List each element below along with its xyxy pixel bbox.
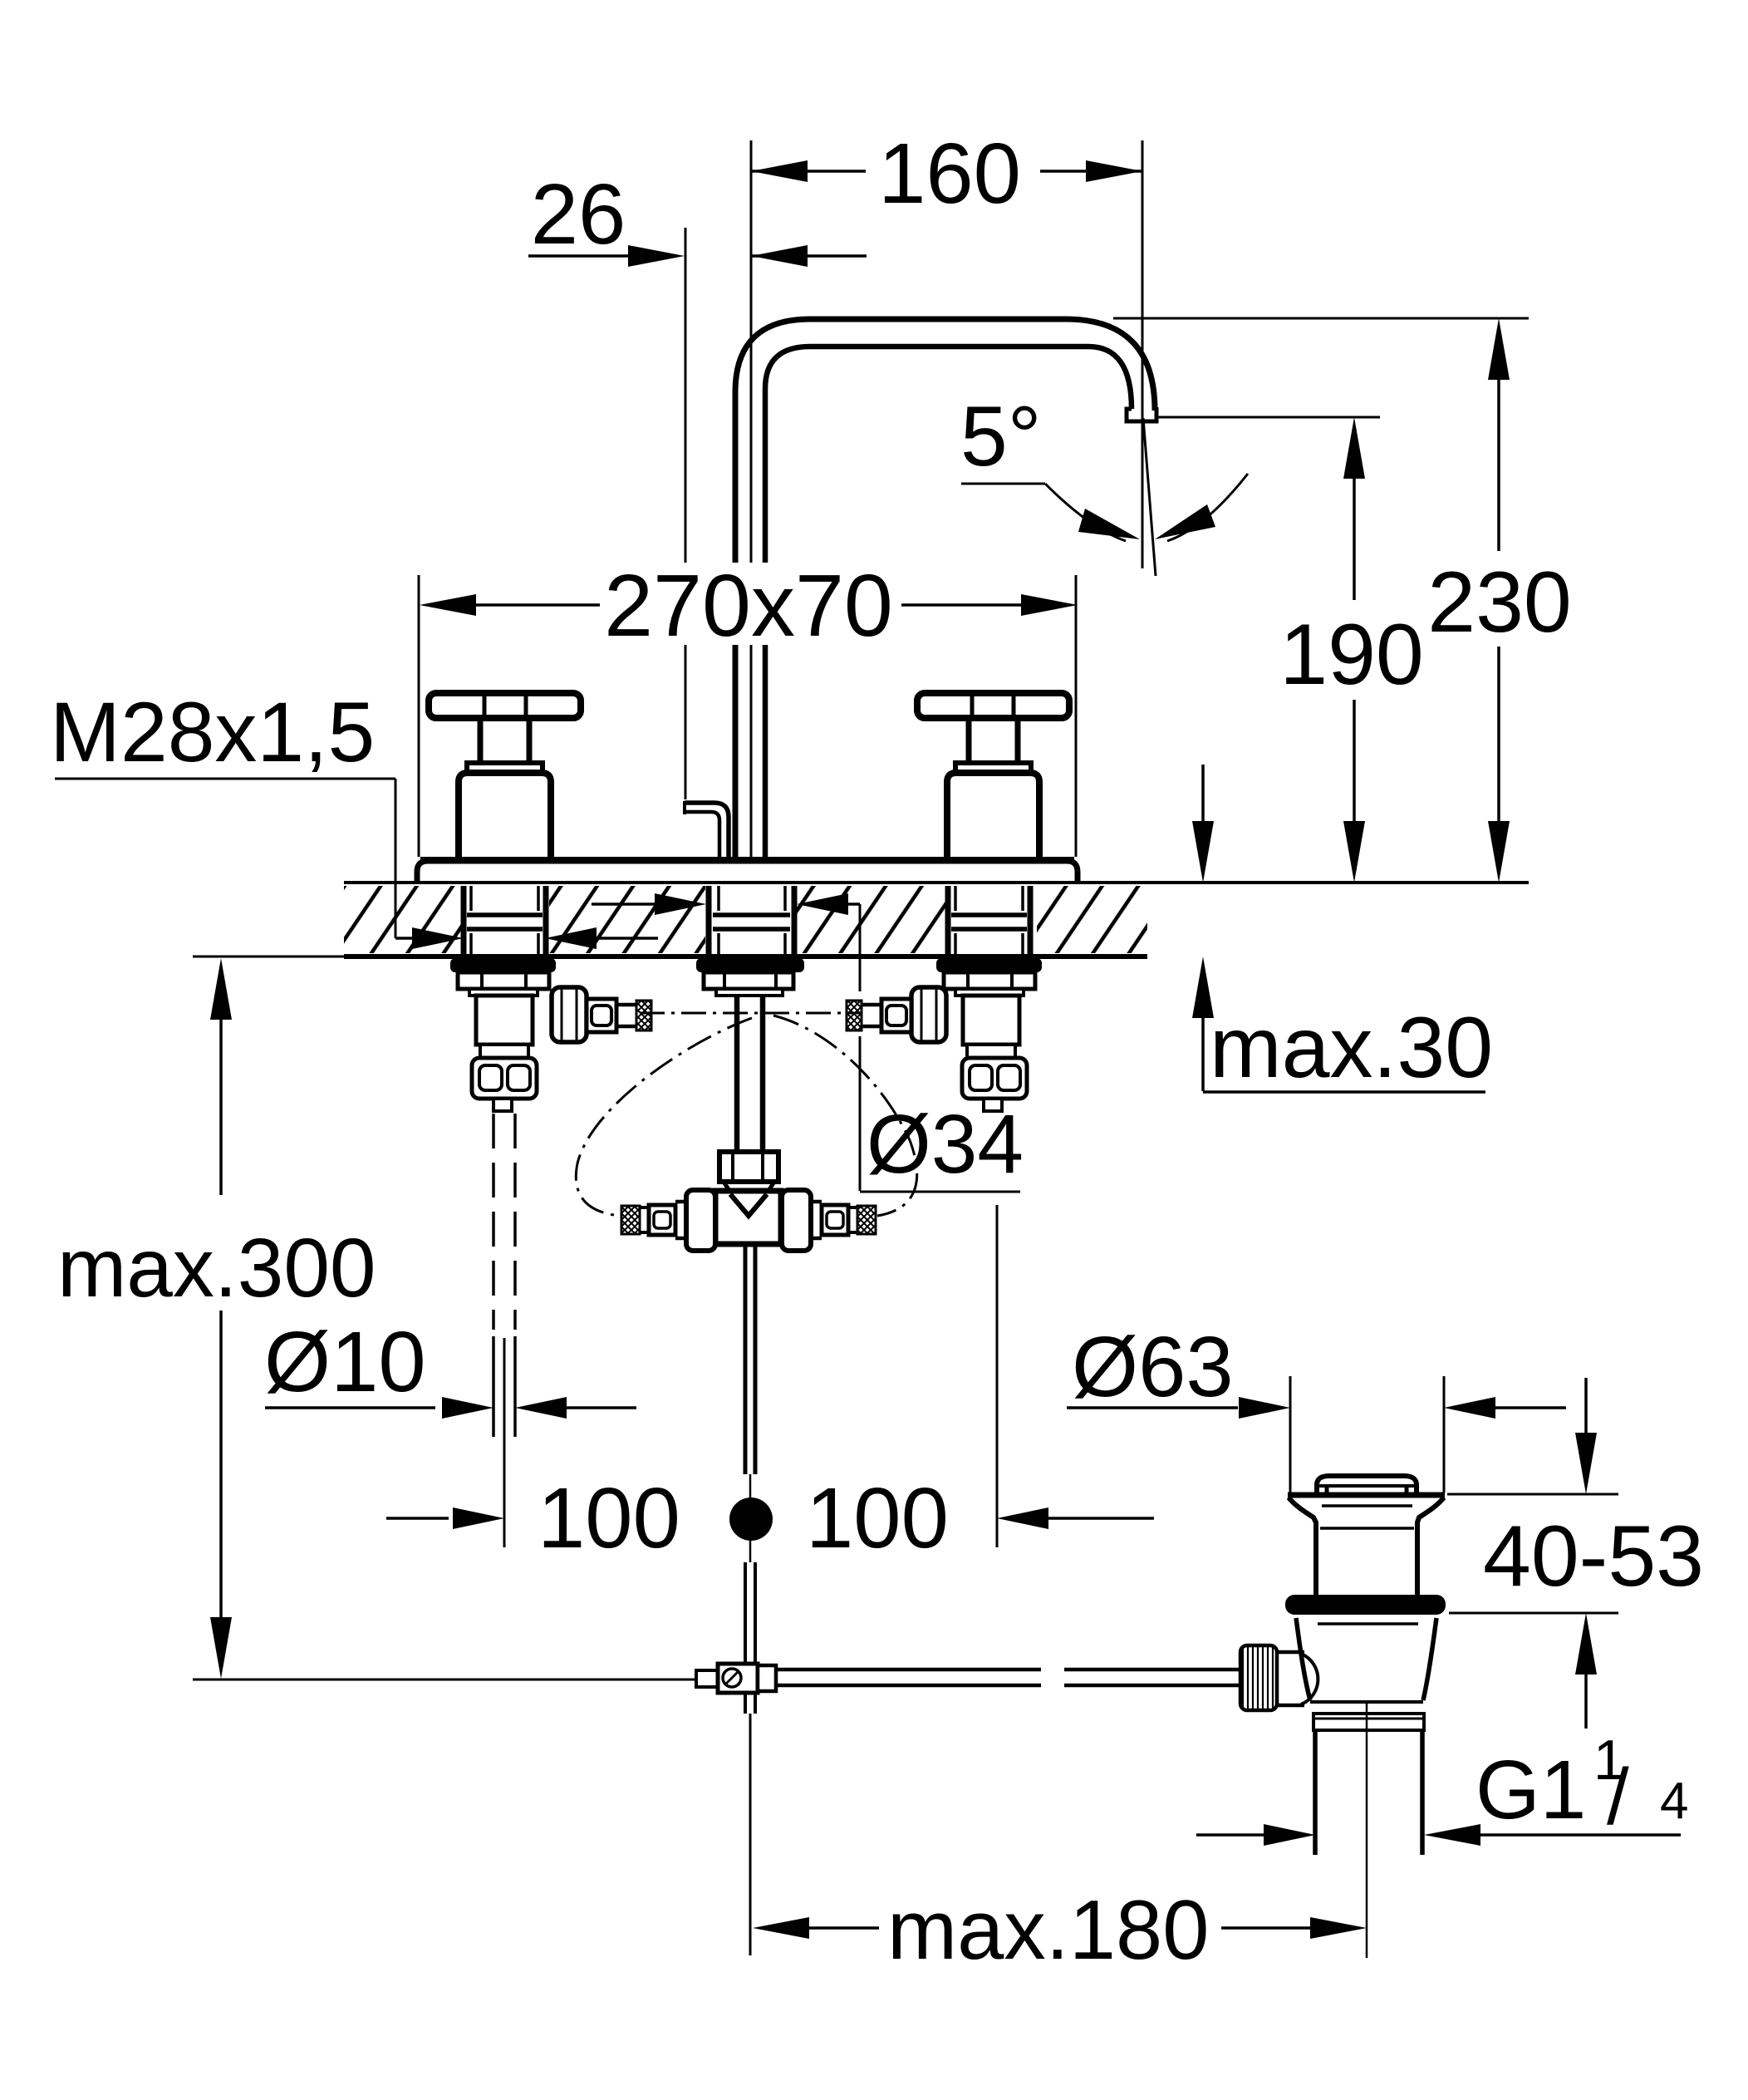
extension line 190 at spout tip — [1156, 416, 1380, 419]
countertop hatching — [344, 886, 462, 953]
dimension M28 arrows — [395, 937, 415, 940]
tee right union nut — [782, 1190, 811, 1251]
white box behind 270x70 — [592, 563, 909, 645]
right handle cross bar — [917, 693, 1069, 718]
dimension 270x70 — [418, 575, 420, 857]
left handle body — [459, 773, 551, 859]
drain flange right side — [1417, 1498, 1444, 1595]
svg-text:/: / — [1607, 1753, 1629, 1842]
tee V notch — [730, 1194, 767, 1216]
angle 5 degree leader — [961, 483, 1045, 485]
svg-text:270x70: 270x70 — [604, 557, 893, 655]
tee left union nut — [686, 1190, 715, 1251]
svg-text:G1: G1 — [1475, 1743, 1586, 1837]
drain flange left side — [1289, 1498, 1316, 1595]
dimension 40-53 bottom arrow — [1575, 1613, 1597, 1675]
tee right nipple hex — [822, 1205, 848, 1235]
drain outlet pipe — [1313, 1730, 1318, 1855]
left valve mounting nut — [458, 972, 549, 989]
spout outer contour — [735, 319, 1155, 858]
drain thread ring — [1313, 1714, 1424, 1730]
dimension max.30 — [1201, 765, 1205, 831]
left handle collar — [467, 763, 543, 774]
drain body below O-ring — [1296, 1618, 1310, 1700]
spout outlet 5 degree slant line — [1143, 418, 1156, 576]
right valve union nut — [911, 987, 946, 1042]
right valve outlet stub — [984, 1099, 1002, 1111]
extension line spout outlet — [1142, 140, 1144, 568]
left supply pipe dashed diameter 10 — [492, 1114, 495, 1330]
rod clamp block — [718, 1664, 758, 1693]
tee left tube — [675, 1200, 686, 1204]
svg-text:100: 100 — [806, 1470, 949, 1566]
countertop bottom surface — [193, 956, 344, 958]
tee left knurled end — [621, 1206, 640, 1234]
right handle collar — [955, 763, 1031, 774]
svg-text:Ø10: Ø10 — [264, 1314, 426, 1409]
drain knob neck — [1277, 1650, 1304, 1655]
extension line right valve axis — [996, 1205, 999, 1547]
left valve shank through counter — [461, 886, 467, 957]
drain pull rod thin middle — [749, 1474, 752, 1562]
center supply tube — [734, 996, 740, 1152]
svg-text:5°: 5° — [960, 389, 1042, 484]
tee right knurled end — [857, 1206, 876, 1234]
max.300 bottom reference line — [193, 1679, 696, 1681]
dimension max.300 — [210, 958, 232, 1020]
left valve washer — [450, 958, 556, 972]
pull rod tip cap — [683, 801, 686, 814]
right valve washer — [936, 958, 1042, 972]
svg-text:40-53: 40-53 — [1483, 1508, 1704, 1605]
drain stopper cap — [1317, 1476, 1417, 1493]
tee right tube2 — [848, 1206, 857, 1209]
svg-text:Ø63: Ø63 — [1072, 1319, 1234, 1414]
center mounting nut — [704, 972, 793, 989]
right handle stem — [966, 718, 972, 763]
extension line 230 at spout top — [1113, 317, 1529, 320]
svg-text:M28x1,5: M28x1,5 — [50, 685, 375, 780]
dimension 160 line — [751, 170, 866, 173]
dimension 100 left — [386, 1517, 449, 1520]
left valve outlet stub — [493, 1099, 512, 1111]
svg-text:190: 190 — [1279, 607, 1424, 703]
rod clamp hex tip — [696, 1670, 718, 1687]
fittings dash-dot centerline — [640, 1012, 860, 1015]
spout tip aerator — [1127, 407, 1156, 421]
dimension diameter 10 arrows — [265, 1406, 435, 1409]
drain extension line left — [1289, 1376, 1292, 1493]
angle 5 degree right arc — [1167, 474, 1248, 541]
left valve nipple hex — [587, 999, 616, 1032]
right valve connector piece — [967, 1045, 1015, 1058]
tee left nipple hex — [649, 1205, 675, 1235]
extension line pull-rod axis — [685, 228, 687, 563]
tee neck — [724, 1182, 774, 1191]
svg-text:max.300: max.300 — [57, 1222, 376, 1315]
leader diameter 34 — [859, 904, 862, 991]
svg-text:100: 100 — [538, 1470, 680, 1566]
dimension diameter 34 arrows — [592, 902, 656, 906]
extension line spout axis — [750, 140, 753, 563]
right valve nipple hex — [881, 999, 911, 1032]
drain pull rod lower — [744, 1562, 747, 1714]
drain extension line right — [1443, 1376, 1446, 1493]
right valve knurled end — [847, 1001, 862, 1030]
lever rod horizontal — [778, 1668, 1041, 1672]
left handle cross bar — [429, 693, 581, 718]
left valve check block — [472, 1058, 537, 1099]
tee body — [715, 1191, 781, 1244]
drain O-ring — [1285, 1595, 1446, 1615]
svg-text:4: 4 — [1660, 1773, 1688, 1830]
pull rod bent top outer — [685, 803, 729, 858]
dimension diameter 63 — [1067, 1406, 1238, 1409]
extension line left valve axis — [503, 1338, 506, 1547]
countertop top surface — [344, 881, 1529, 884]
angle 5 degree left arc — [1045, 484, 1126, 541]
drain flange top — [1288, 1493, 1445, 1498]
rod clamp end — [758, 1665, 776, 1691]
dimension G1 1/4 — [1196, 1833, 1264, 1837]
svg-text:max.30: max.30 — [1210, 1000, 1493, 1096]
right valve shank through counter — [945, 886, 951, 957]
drain neck lines — [1322, 1504, 1412, 1507]
right valve nipple tube — [862, 1003, 881, 1007]
dimension 190 — [1343, 417, 1365, 479]
center shank through counter — [706, 886, 712, 957]
left hose curve dash-dot — [576, 1018, 752, 1216]
left valve knurled end — [636, 1001, 651, 1030]
tee left tube2 — [640, 1206, 649, 1209]
left valve nipple tube — [616, 1003, 636, 1007]
right valve mounting nut — [944, 972, 1035, 989]
right hose curve dash-dot — [773, 1016, 917, 1216]
drain knurled knob — [1240, 1645, 1277, 1710]
drain pull rod upper — [744, 1244, 748, 1474]
escutcheon plate 270x70 — [417, 861, 1078, 883]
right handle body — [947, 773, 1039, 859]
drain centerline — [1366, 1700, 1368, 1958]
spout inner contour — [765, 347, 1132, 858]
pull rod bent top inner — [685, 812, 719, 858]
right valve check block — [962, 1058, 1027, 1099]
drain ball housing arc — [1301, 1654, 1318, 1704]
svg-text:160: 160 — [878, 125, 1021, 221]
svg-text:26: 26 — [531, 166, 626, 262]
pull rod ball joint — [729, 1498, 773, 1541]
center washer — [696, 958, 804, 972]
dimension 26 line — [528, 254, 631, 258]
left handle stem — [478, 718, 484, 763]
dimension 230 — [1488, 318, 1510, 380]
right valve body — [963, 996, 1019, 1045]
svg-text:230: 230 — [1427, 554, 1572, 651]
left valve union nut — [552, 987, 587, 1042]
left valve connector piece — [480, 1045, 528, 1058]
left valve body — [476, 996, 533, 1045]
tee top nut — [719, 1152, 778, 1182]
dimension 40-53 top arrow — [1584, 1378, 1588, 1442]
svg-text:max.180: max.180 — [887, 1884, 1209, 1977]
tee right tube — [811, 1200, 822, 1204]
dimension max.180 — [753, 1917, 809, 1939]
